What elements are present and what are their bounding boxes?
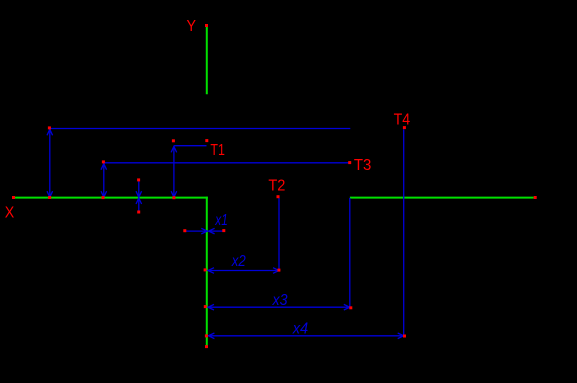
wire: T2 vertical at x=279	[278, 198, 280, 271]
dimension x4	[208, 333, 403, 339]
point marker: v2 top	[102, 160, 105, 163]
point marker: x2 left	[204, 268, 207, 271]
svg-text:x4: x4	[292, 320, 309, 337]
point marker: bottom of green vertical	[205, 345, 208, 348]
dimension arrow v2 at x=103.8	[101, 163, 107, 198]
point marker: x2 right	[277, 269, 280, 272]
svg-text:T1: T1	[210, 142, 225, 159]
X axis left segment (green)	[14, 197, 208, 199]
green vertical drop at x=206.8	[206, 197, 208, 347]
svg-text:x3: x3	[272, 292, 288, 309]
svg-text:T2: T2	[268, 178, 285, 195]
dimension arrow v3 at x=138.8 (converging on axis)	[136, 181, 142, 212]
point marker: v3 bottom	[137, 211, 140, 214]
point marker: v1 top	[48, 126, 51, 129]
point marker: v1 bottom	[48, 196, 51, 199]
wire: x3 vertical at x=349.8	[349, 198, 351, 307]
X axis right segment (green)	[350, 197, 534, 199]
point marker: v3 top	[137, 178, 140, 181]
svg-text:X: X	[5, 204, 15, 221]
point marker: X axis left origin	[12, 196, 15, 199]
wire h2: blue horizontal at y=162 (to T3)	[103, 162, 350, 164]
point marker: x1 left	[183, 229, 186, 232]
point marker: x4 left	[205, 334, 208, 337]
point marker: v4 top	[172, 139, 175, 142]
wire h1: blue horizontal at y=128	[49, 128, 350, 130]
point marker: X axis right end	[534, 196, 537, 199]
point marker: v4 bottom	[172, 196, 175, 199]
dimension x3	[208, 304, 350, 310]
svg-text:Y: Y	[187, 18, 197, 35]
dimension arrow v4 at x=173.9	[171, 146, 177, 198]
wire h3: blue horizontal at y=145 (to T1)	[174, 145, 206, 147]
point marker: T3 point	[348, 161, 351, 164]
point marker: v2 bottom	[102, 196, 105, 199]
Y axis (green vertical segment)	[206, 26, 208, 94]
point marker: T4 point	[403, 126, 406, 129]
point marker: T1 point	[205, 139, 208, 142]
point marker: x3 right	[349, 306, 352, 309]
svg-text:x2: x2	[231, 253, 246, 270]
svg-text:x1: x1	[215, 212, 228, 229]
point marker: T2 point	[277, 195, 280, 198]
point marker: x3 left	[204, 305, 207, 308]
dimension x2	[208, 268, 279, 274]
point marker: x1 right	[222, 229, 225, 232]
point marker: top of Y axis	[205, 24, 208, 27]
svg-text:T4: T4	[394, 111, 411, 128]
dimension x1 (arrows converge at green line)	[186, 228, 225, 234]
wire: T4 vertical at x=403.7	[403, 129, 405, 336]
svg-text:T3: T3	[354, 157, 372, 174]
dimension arrow v1 at x=49.8	[47, 129, 53, 198]
point marker: x4 right	[403, 335, 406, 338]
